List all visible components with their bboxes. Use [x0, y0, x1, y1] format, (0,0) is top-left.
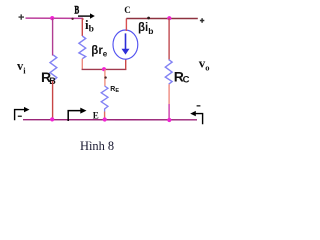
- node bottom-right: [167, 118, 171, 122]
- svg-text:B: B: [74, 5, 79, 17]
- current source arrow: [122, 33, 130, 54]
- current arrow ib: [78, 13, 95, 18]
- svg-text:vo: vo: [199, 56, 210, 73]
- wire right vertical lower (Rc to bottom): [168, 84, 170, 104]
- svg-text:RE: RE: [110, 86, 119, 94]
- node top-right (Rc top junction): [167, 16, 171, 20]
- wire left vertical lower (Rb to bottom): [52, 81, 54, 120]
- wire horizontal connector (E row): [82, 68, 127, 70]
- svg-text:C: C: [183, 75, 190, 86]
- wire beta-re bottom stub: [81, 59, 83, 70]
- node top-left (Rb top junction): [50, 16, 54, 20]
- wire top-right horizontal (C to vo+): [126, 18, 197, 20]
- wire left vertical upper (node to Rb): [52, 18, 54, 55]
- minus sign right: [197, 105, 201, 106]
- plus terminal (vi +): [19, 14, 25, 19]
- node E junction: [102, 67, 106, 71]
- svg-text:vi: vi: [17, 59, 26, 76]
- wire current source bottom stub: [125, 59, 127, 70]
- junction dot on RE stub: [104, 76, 106, 78]
- current source circle: [113, 30, 138, 59]
- svg-text:βre: βre: [91, 45, 108, 59]
- wire RE top stub: [104, 69, 106, 86]
- wire current source top stub: [125, 19, 127, 32]
- ground return arrow left: [15, 110, 25, 121]
- minus sign left: [18, 116, 22, 117]
- wire RE bottom stub: [104, 112, 106, 120]
- wire right vertical upper (node to Rc): [168, 18, 170, 59]
- plus terminal (vo +): [200, 18, 204, 22]
- svg-text:C: C: [124, 5, 131, 15]
- svg-text:ib: ib: [85, 17, 94, 35]
- wire top-left horizontal (vi+ to node B): [26, 17, 84, 19]
- junction tick on wire: [71, 18, 73, 20]
- ground return arrow right: [196, 114, 203, 125]
- ground return arrow middle: [68, 111, 80, 121]
- wire B branch vertical (corner to beta-re): [81, 18, 84, 36]
- junction dot (beta-ib node): [147, 17, 150, 20]
- resistor beta-re: [79, 36, 86, 59]
- svg-text:E: E: [93, 110, 99, 120]
- resistor RE: [101, 86, 108, 112]
- resistor RC: [165, 60, 172, 85]
- node bottom-left: [50, 117, 54, 121]
- svg-text:βib: βib: [138, 22, 153, 36]
- wire bottom horizontal: [23, 119, 197, 121]
- node bottom-middle: [103, 117, 107, 121]
- svg-text:Hình 8: Hình 8: [80, 139, 114, 153]
- resistor RB: [50, 55, 57, 81]
